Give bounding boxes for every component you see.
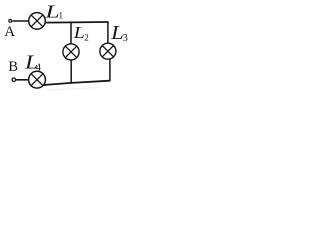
scan smudge (faint): [46, 88, 100, 91]
svg-text:1: 1: [59, 10, 64, 20]
terminal A: [9, 20, 12, 23]
lamp L3: [100, 43, 116, 59]
svg-text:L: L: [44, 1, 59, 21]
label L2: [73, 24, 89, 43]
lamp L4: [29, 71, 46, 88]
svg-text:4: 4: [36, 62, 42, 73]
wire below L3: [109, 59, 111, 81]
wire L1 to corner above L3: [45, 21, 108, 24]
wire A to L1: [12, 20, 29, 22]
label L3: [110, 21, 128, 44]
svg-text:3: 3: [123, 33, 128, 44]
svg-text:2: 2: [84, 32, 89, 42]
wire junction down to L2: [70, 22, 72, 44]
wire corner down to L3: [107, 22, 109, 44]
svg-text:B: B: [8, 59, 18, 75]
wire below L2: [70, 60, 72, 84]
svg-text:L: L: [73, 24, 85, 42]
svg-text:A: A: [4, 24, 15, 40]
wire B to L4: [16, 79, 29, 81]
lamp L1: [29, 13, 46, 30]
lamp L2: [63, 44, 79, 60]
terminal B: [12, 78, 16, 82]
bottom wire L4 to below L3: [44, 81, 110, 85]
label L1: [44, 1, 63, 21]
label L4: [24, 51, 42, 73]
